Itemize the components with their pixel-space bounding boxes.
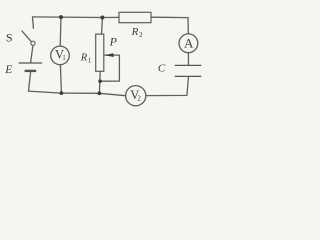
node V1 top junction (59, 15, 63, 19)
battery E long plate (19, 62, 43, 64)
svg-text:1: 1 (88, 56, 92, 64)
svg-text:C: C (158, 62, 166, 74)
wire top-middle: V1 node to R1 node (61, 16, 102, 18)
wire battery positive plate to switch contact (31, 46, 33, 63)
svg-text:A: A (184, 35, 194, 50)
svg-text:R: R (80, 52, 88, 63)
resistor R2 body (119, 12, 151, 22)
capacitor C bottom plate (175, 75, 202, 77)
wire R2 right terminal to top-right corner down to ammeter (151, 17, 188, 34)
svg-text:R: R (131, 26, 139, 38)
capacitor C top plate (175, 64, 202, 66)
ammeter A (179, 34, 198, 53)
wire top-left: corner to V1 node (33, 16, 62, 18)
wire voltmeter V1 to bottom node (60, 65, 61, 93)
switch S blade (22, 31, 31, 42)
wire R1 bottom node to V1 bottom node (61, 92, 99, 94)
node wiper junction (98, 79, 102, 83)
wire V2 left to R1 bottom node (99, 93, 125, 95)
wire R1 node down to rheostat R1 (101, 18, 104, 35)
wire V1 node down to voltmeter V1 (59, 17, 62, 46)
voltmeter V2 (126, 86, 146, 106)
battery E short thick plate (25, 70, 37, 72)
svg-text:2: 2 (137, 95, 141, 103)
voltmeter V1 (51, 46, 70, 65)
wire V1 bottom node to bottom-left corner up to battery (29, 72, 62, 93)
label V1 (55, 48, 66, 63)
svg-text:1: 1 (62, 54, 66, 62)
svg-text:E: E (4, 64, 12, 76)
wire switch top lead to top-left corner (32, 17, 35, 28)
label R1 (80, 52, 92, 64)
wire R1 node to R2 left terminal (102, 16, 119, 18)
wire rheostat wiper to bottom: right and down (100, 55, 119, 81)
switch S contact circle (31, 41, 35, 45)
node R1 top junction (100, 16, 104, 20)
wire ammeter to capacitor top plate (187, 53, 189, 65)
wire capacitor bottom plate to bottom-right corner to V2 (146, 77, 189, 96)
svg-text:S: S (6, 31, 13, 45)
wire rheostat R1 bottom to bottom wire node (98, 71, 101, 93)
label V2 (130, 88, 141, 103)
svg-text:P: P (109, 35, 118, 49)
node R1 bottom junction (98, 91, 102, 95)
rheostat wiper arrowhead (104, 53, 114, 57)
node V1 bottom junction (60, 91, 64, 95)
svg-text:2: 2 (139, 31, 143, 39)
rheostat R1 body (96, 34, 104, 71)
label R2 (131, 26, 143, 39)
